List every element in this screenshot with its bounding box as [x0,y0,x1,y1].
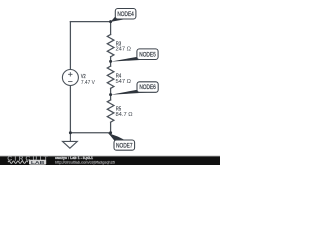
wire R5 to bottom rail [110,122,112,133]
resistor R4 [107,66,114,88]
resistor R3 [107,35,114,57]
svg-text:NODE6: NODE6 [139,84,156,91]
node flag NODE6 [111,90,151,95]
svg-text:http://circuitlab.com/c3j9fa3g: http://circuitlab.com/c3j9fa3gsqh26 [55,159,115,164]
minus sign [68,81,72,83]
junction dot NODE5 [109,60,112,63]
resistor R5 [107,100,114,122]
svg-text:LAB: LAB [31,160,46,165]
wire R4 to R5 [110,88,112,100]
wire bottom rail [70,132,110,134]
svg-text:547 Ω: 547 Ω [116,79,131,85]
plus sign [68,72,72,76]
svg-text:7.47 V: 7.47 V [81,80,95,86]
wire top rail [70,21,110,23]
footer logo CIRCUIT LAB [8,155,51,164]
svg-text:NODE5: NODE5 [139,51,156,58]
junction dot NODE6 [109,93,112,96]
node flag NODE5 [111,57,151,62]
node flag NODE7 [108,133,126,141]
junction dot ground [69,131,72,134]
node flag NODE4 [111,16,128,22]
svg-text:247 Ω: 247 Ω [116,47,131,53]
wire R3 to R4 [110,57,112,66]
wire left rail lower [69,86,71,133]
svg-text:NODE7: NODE7 [116,142,133,149]
junction dot NODE4 [109,20,112,23]
wire left rail upper [69,22,71,70]
wire right rail top segment [110,22,112,35]
ground [63,133,78,149]
svg-text:NODE4: NODE4 [117,11,134,18]
svg-text:84.7 Ω: 84.7 Ω [116,112,133,118]
junction dot NODE7 [109,131,112,134]
voltage source V2 circle [62,70,78,86]
